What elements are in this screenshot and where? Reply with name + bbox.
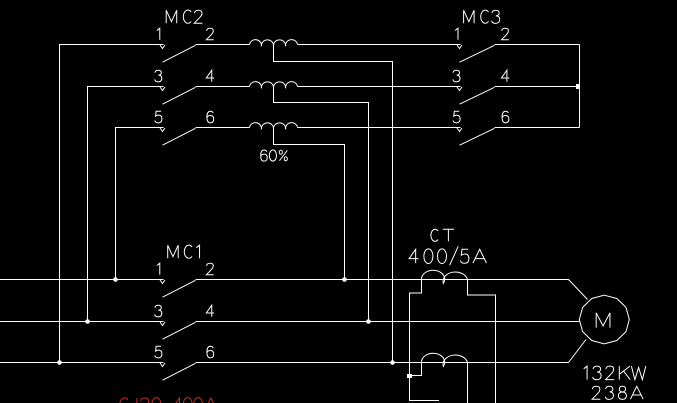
- pin label MC3-3: [453, 70, 460, 82]
- pin label MC3-5: [453, 111, 460, 123]
- wire star point bus: [579, 45, 581, 128]
- pin label MC1-2: [206, 263, 213, 275]
- wire MC1 pin2 to motor phase U: [196, 280, 588, 300]
- junction tap1/row3: [390, 360, 395, 365]
- CT coil 2 (phase W): [421, 353, 467, 366]
- contactor MC3 contact 3-4: [457, 87, 495, 104]
- wire reactor2 to MC3 pin 3: [298, 86, 461, 88]
- motor rating 238A: [592, 386, 643, 399]
- contactor MC1 contact 3-4: [160, 322, 196, 339]
- contactor MC1 contact 1-2: [160, 280, 196, 297]
- reactor coil 3: [250, 123, 298, 130]
- pin label MC3-6: [502, 111, 509, 123]
- contactor MC2 contact 1-2: [160, 45, 196, 62]
- wire CT1 secondary S1: [410, 280, 440, 401]
- wire supply line 3 (bottom): [0, 362, 164, 364]
- motor M circle: [579, 295, 629, 344]
- junction tap3/row1: [342, 277, 347, 282]
- junction tap2/row2: [366, 319, 371, 324]
- pin label MC2-2: [206, 28, 213, 40]
- motor M letter: [596, 313, 610, 328]
- pin label MC1-3: [155, 305, 162, 317]
- pin label MC2-4: [206, 70, 214, 82]
- wire reactor3 60% tap to MC1 output row1: [274, 128, 345, 280]
- contactor MC2 label: [166, 10, 202, 23]
- pin label MC2-3: [155, 70, 162, 82]
- pin label MC1-4: [206, 305, 214, 317]
- contactor MC1 label: [168, 245, 200, 258]
- contactor MC1 contact 5-6: [160, 363, 196, 380]
- wire reactor2 60% tap to MC1 output row2: [274, 87, 369, 322]
- junction supply1/feed5: [113, 277, 118, 282]
- wire reactor1 60% tap to MC1 output row3: [274, 45, 393, 363]
- pin label MC2-6: [207, 111, 214, 123]
- pin label MC3-2: [502, 28, 509, 40]
- contactor MC3 contact 1-2: [457, 45, 495, 62]
- wire CT2 secondary S1: [410, 363, 422, 376]
- wire MC1 pin4 to motor phase V: [196, 321, 581, 323]
- wire feed to MC2 pin 3: [88, 87, 164, 322]
- contactor MC3 contact 5-6: [457, 128, 495, 145]
- CT ratio label 400/5A: [409, 246, 486, 265]
- wire MC1 pin6 to motor phase W: [196, 340, 587, 363]
- contactor MC2 contact 5-6: [160, 128, 196, 145]
- motor rating 132KW: [584, 366, 646, 380]
- wire feed to MC2 pin 5: [116, 128, 164, 280]
- pin label MC1-1: [157, 263, 160, 275]
- wire MC3 pin6 to star bus: [495, 127, 580, 129]
- wire MC2 pin4 to reactor 2: [196, 86, 250, 88]
- pin label MC3-4: [501, 70, 509, 82]
- wire MC2 pin2 to reactor 1: [196, 44, 250, 46]
- wire MC3 pin4 to star bus: [495, 86, 580, 88]
- wire reactor3 to MC3 pin 5: [298, 127, 461, 129]
- contactor MC3 label: [464, 10, 500, 23]
- CT label: [431, 229, 454, 241]
- contactor MC2 contact 3-4: [160, 87, 196, 104]
- reactor coil 2: [250, 82, 298, 89]
- pin label MC1-6: [207, 346, 214, 358]
- junction supply3/feed1: [57, 360, 62, 365]
- pin label MC2-1: [157, 28, 160, 40]
- junction supply2/feed3: [85, 319, 90, 324]
- wire MC3 pin2 to star bus: [495, 44, 580, 46]
- wire MC2 pin6 to reactor 3: [196, 127, 250, 129]
- wire supply line 1 (top): [0, 279, 164, 281]
- wire CT1 secondary S2: [468, 280, 496, 403]
- wire reactor1 to MC3 pin 1: [298, 44, 461, 46]
- label 60% tap: [261, 150, 288, 161]
- junction CT secondary common: [407, 374, 412, 378]
- wire feed to MC2 pin 1: [60, 45, 164, 363]
- pin label MC3-1: [455, 28, 458, 40]
- pin label MC1-5: [155, 346, 162, 358]
- pin label MC2-5: [155, 111, 162, 123]
- contactor type label CJ20-400A (red, clipped): [120, 398, 218, 403]
- junction star bus: [576, 84, 580, 89]
- wire supply line 2 (middle): [0, 321, 164, 323]
- CT coil 1 (phase U): [421, 270, 467, 283]
- reactor coil 1: [250, 40, 298, 47]
- wire CT2 secondary S2: [467, 363, 469, 403]
